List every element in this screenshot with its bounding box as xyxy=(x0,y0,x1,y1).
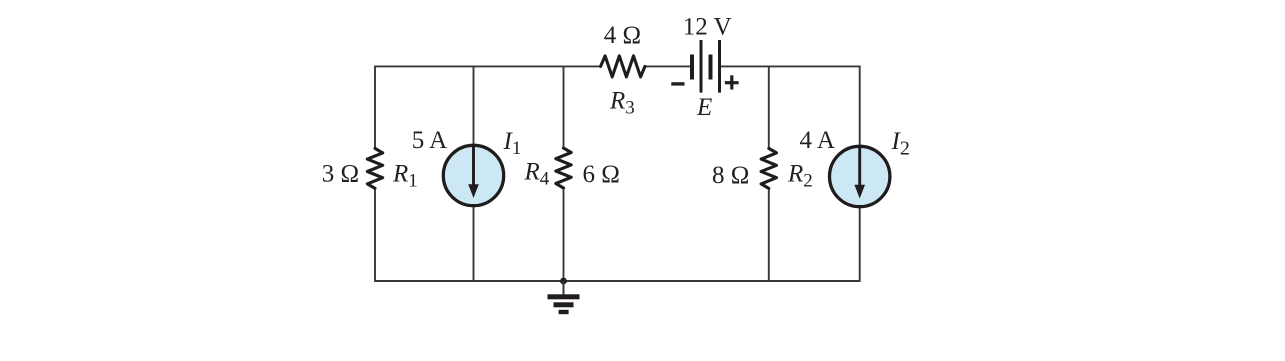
svg-text:3 Ω: 3 Ω xyxy=(322,161,359,188)
svg-text:E: E xyxy=(696,94,712,121)
wire right branch above I2 xyxy=(859,66,861,147)
ground xyxy=(548,281,580,314)
wire left branch above R1 xyxy=(374,66,376,150)
battery E xyxy=(690,40,721,93)
svg-text:4 A: 4 A xyxy=(800,127,835,154)
resistor R4 xyxy=(556,148,571,188)
wire between R3 and battery xyxy=(645,65,691,67)
wire left branch below R1 xyxy=(374,188,376,282)
resistor R1 xyxy=(367,148,382,188)
resistor R2 xyxy=(761,148,776,188)
wire R4 branch below resistor xyxy=(563,188,565,281)
node junction dot at ground tap xyxy=(560,278,567,285)
svg-text:12 V: 12 V xyxy=(683,14,732,41)
svg-text:5 A: 5 A xyxy=(412,127,447,154)
wire R2 branch below resistor xyxy=(768,188,770,281)
svg-text:8 Ω: 8 Ω xyxy=(712,162,749,189)
wire I1 branch below source xyxy=(473,206,475,281)
battery minus sign xyxy=(671,82,684,85)
svg-text:6 Ω: 6 Ω xyxy=(583,161,620,188)
resistor R3 xyxy=(601,56,645,77)
wire top-right segment between battery and right corner xyxy=(721,65,860,67)
wire bottom node xyxy=(375,280,860,282)
wire R2 branch above resistor xyxy=(768,66,770,149)
battery plus sign xyxy=(725,75,739,89)
svg-text:4 Ω: 4 Ω xyxy=(604,22,641,49)
wire top-left segment (top node) xyxy=(375,65,601,67)
current source I2 xyxy=(830,146,890,206)
wire R4 branch above resistor xyxy=(563,66,565,148)
current source I1 xyxy=(443,145,503,205)
wire right branch below I2 xyxy=(859,206,861,282)
wire I1 branch above source xyxy=(473,66,475,146)
